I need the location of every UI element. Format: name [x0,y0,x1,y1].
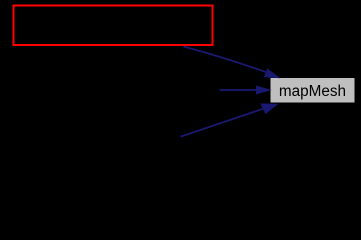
wire: edge E3 from hidden caller to mapMesh [181,109,264,137]
node N1: truncated caller node (red outline, label hidden on black) [14,6,213,46]
wire: edge E2 from hidden caller to mapMesh [220,89,258,91]
wire: edge E1 from node N1 to mapMesh [184,47,267,73]
arrowhead of edge E3 [261,104,277,113]
node mapMesh: current function (grey filled box) [270,78,355,104]
svg-text:mapMesh: mapMesh [279,83,346,100]
arrowhead of edge E2 [257,86,270,94]
arrowhead of edge E1 [265,69,279,77]
